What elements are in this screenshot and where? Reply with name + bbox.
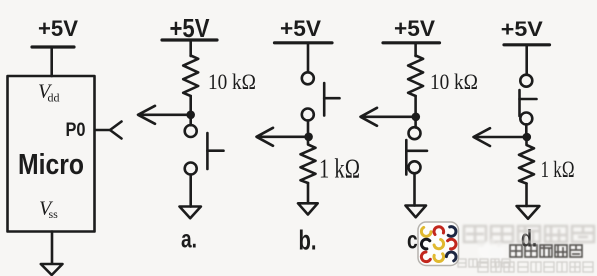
ground (d) [517,206,540,219]
ground (b) [298,203,318,214]
+5V rail (circuit d) [504,43,550,46]
wire rail to switch (d) [525,45,528,75]
+5V rail (circuit c) [383,41,440,44]
node junction (a) [186,111,195,120]
wire resistor to node (c) [414,96,417,117]
wire resistor to ground (d) [525,184,528,207]
wire switch to node (b) [307,120,310,136]
wire switch to ground (a) [189,175,192,207]
pin label Vss [39,198,58,222]
wire rail to resistor (a) [189,40,192,56]
+5V rail (micro) [32,45,74,48]
pushbutton switch (b) [302,72,340,120]
micro U1 box [8,76,95,232]
wire arrow to P0 (a) [138,106,191,124]
node junction (c) [412,113,421,122]
+5V rail (circuit a) [162,38,217,41]
wire node to switch (c) [414,117,417,128]
wire switch to node (d) [525,124,528,137]
pin label Vdd [38,81,60,105]
ground (a) [180,207,201,219]
+5V rail (circuit b) [275,41,333,44]
wire Vss to ground [51,232,54,264]
ground (c) [406,206,427,218]
node junction (d) [523,133,532,142]
pushbutton switch (d) [520,75,537,125]
pushbutton switch (c) [406,127,427,174]
resistor 10k (c) [408,56,423,97]
wire resistor to ground (b) [307,183,310,203]
resistor 10k (a) [183,56,198,97]
wire rail to switch (b) [307,43,310,73]
wire rail to resistor (c) [414,43,417,56]
wire Vdd supply to micro [50,47,53,76]
wire arrow to P0 (d) [474,128,527,146]
ground (micro Vss) [41,264,63,275]
resistor 1k (b) [301,137,316,183]
wire switch to ground (c) [413,173,416,205]
node junction (b) [304,133,313,142]
wire arrow to P0 (c) [361,108,416,126]
wire arrow to P0 (b) [257,128,309,146]
wire resistor to node (a) [189,96,192,115]
pushbutton switch (a) [185,125,224,175]
resistor 1k (d) [519,137,534,184]
pin P0 lead with input chevron [95,122,122,139]
wire node to switch (a) [189,115,192,125]
